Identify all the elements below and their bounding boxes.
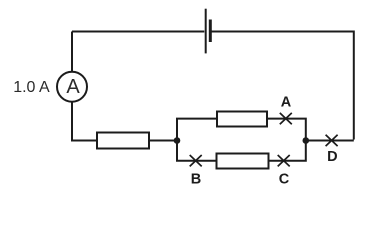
svg-text:A: A <box>281 95 292 111</box>
svg-text:A: A <box>66 76 80 98</box>
svg-text:B: B <box>191 172 201 188</box>
svg-text:D: D <box>327 149 337 165</box>
svg-text:C: C <box>279 172 290 188</box>
svg-text:1.0 A: 1.0 A <box>13 79 50 96</box>
